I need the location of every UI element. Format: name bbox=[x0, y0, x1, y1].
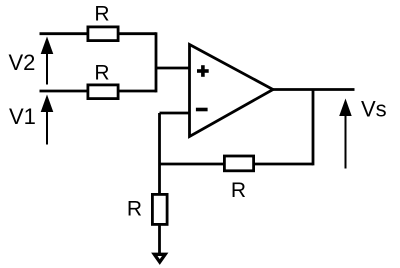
svg-text:R: R bbox=[127, 198, 142, 221]
svg-text:R: R bbox=[94, 3, 109, 26]
svg-text:R: R bbox=[231, 179, 246, 202]
svg-text:V1: V1 bbox=[9, 104, 36, 129]
svg-text:R: R bbox=[94, 62, 109, 85]
svg-text:Vs: Vs bbox=[361, 97, 387, 122]
svg-text:V2: V2 bbox=[9, 50, 36, 75]
